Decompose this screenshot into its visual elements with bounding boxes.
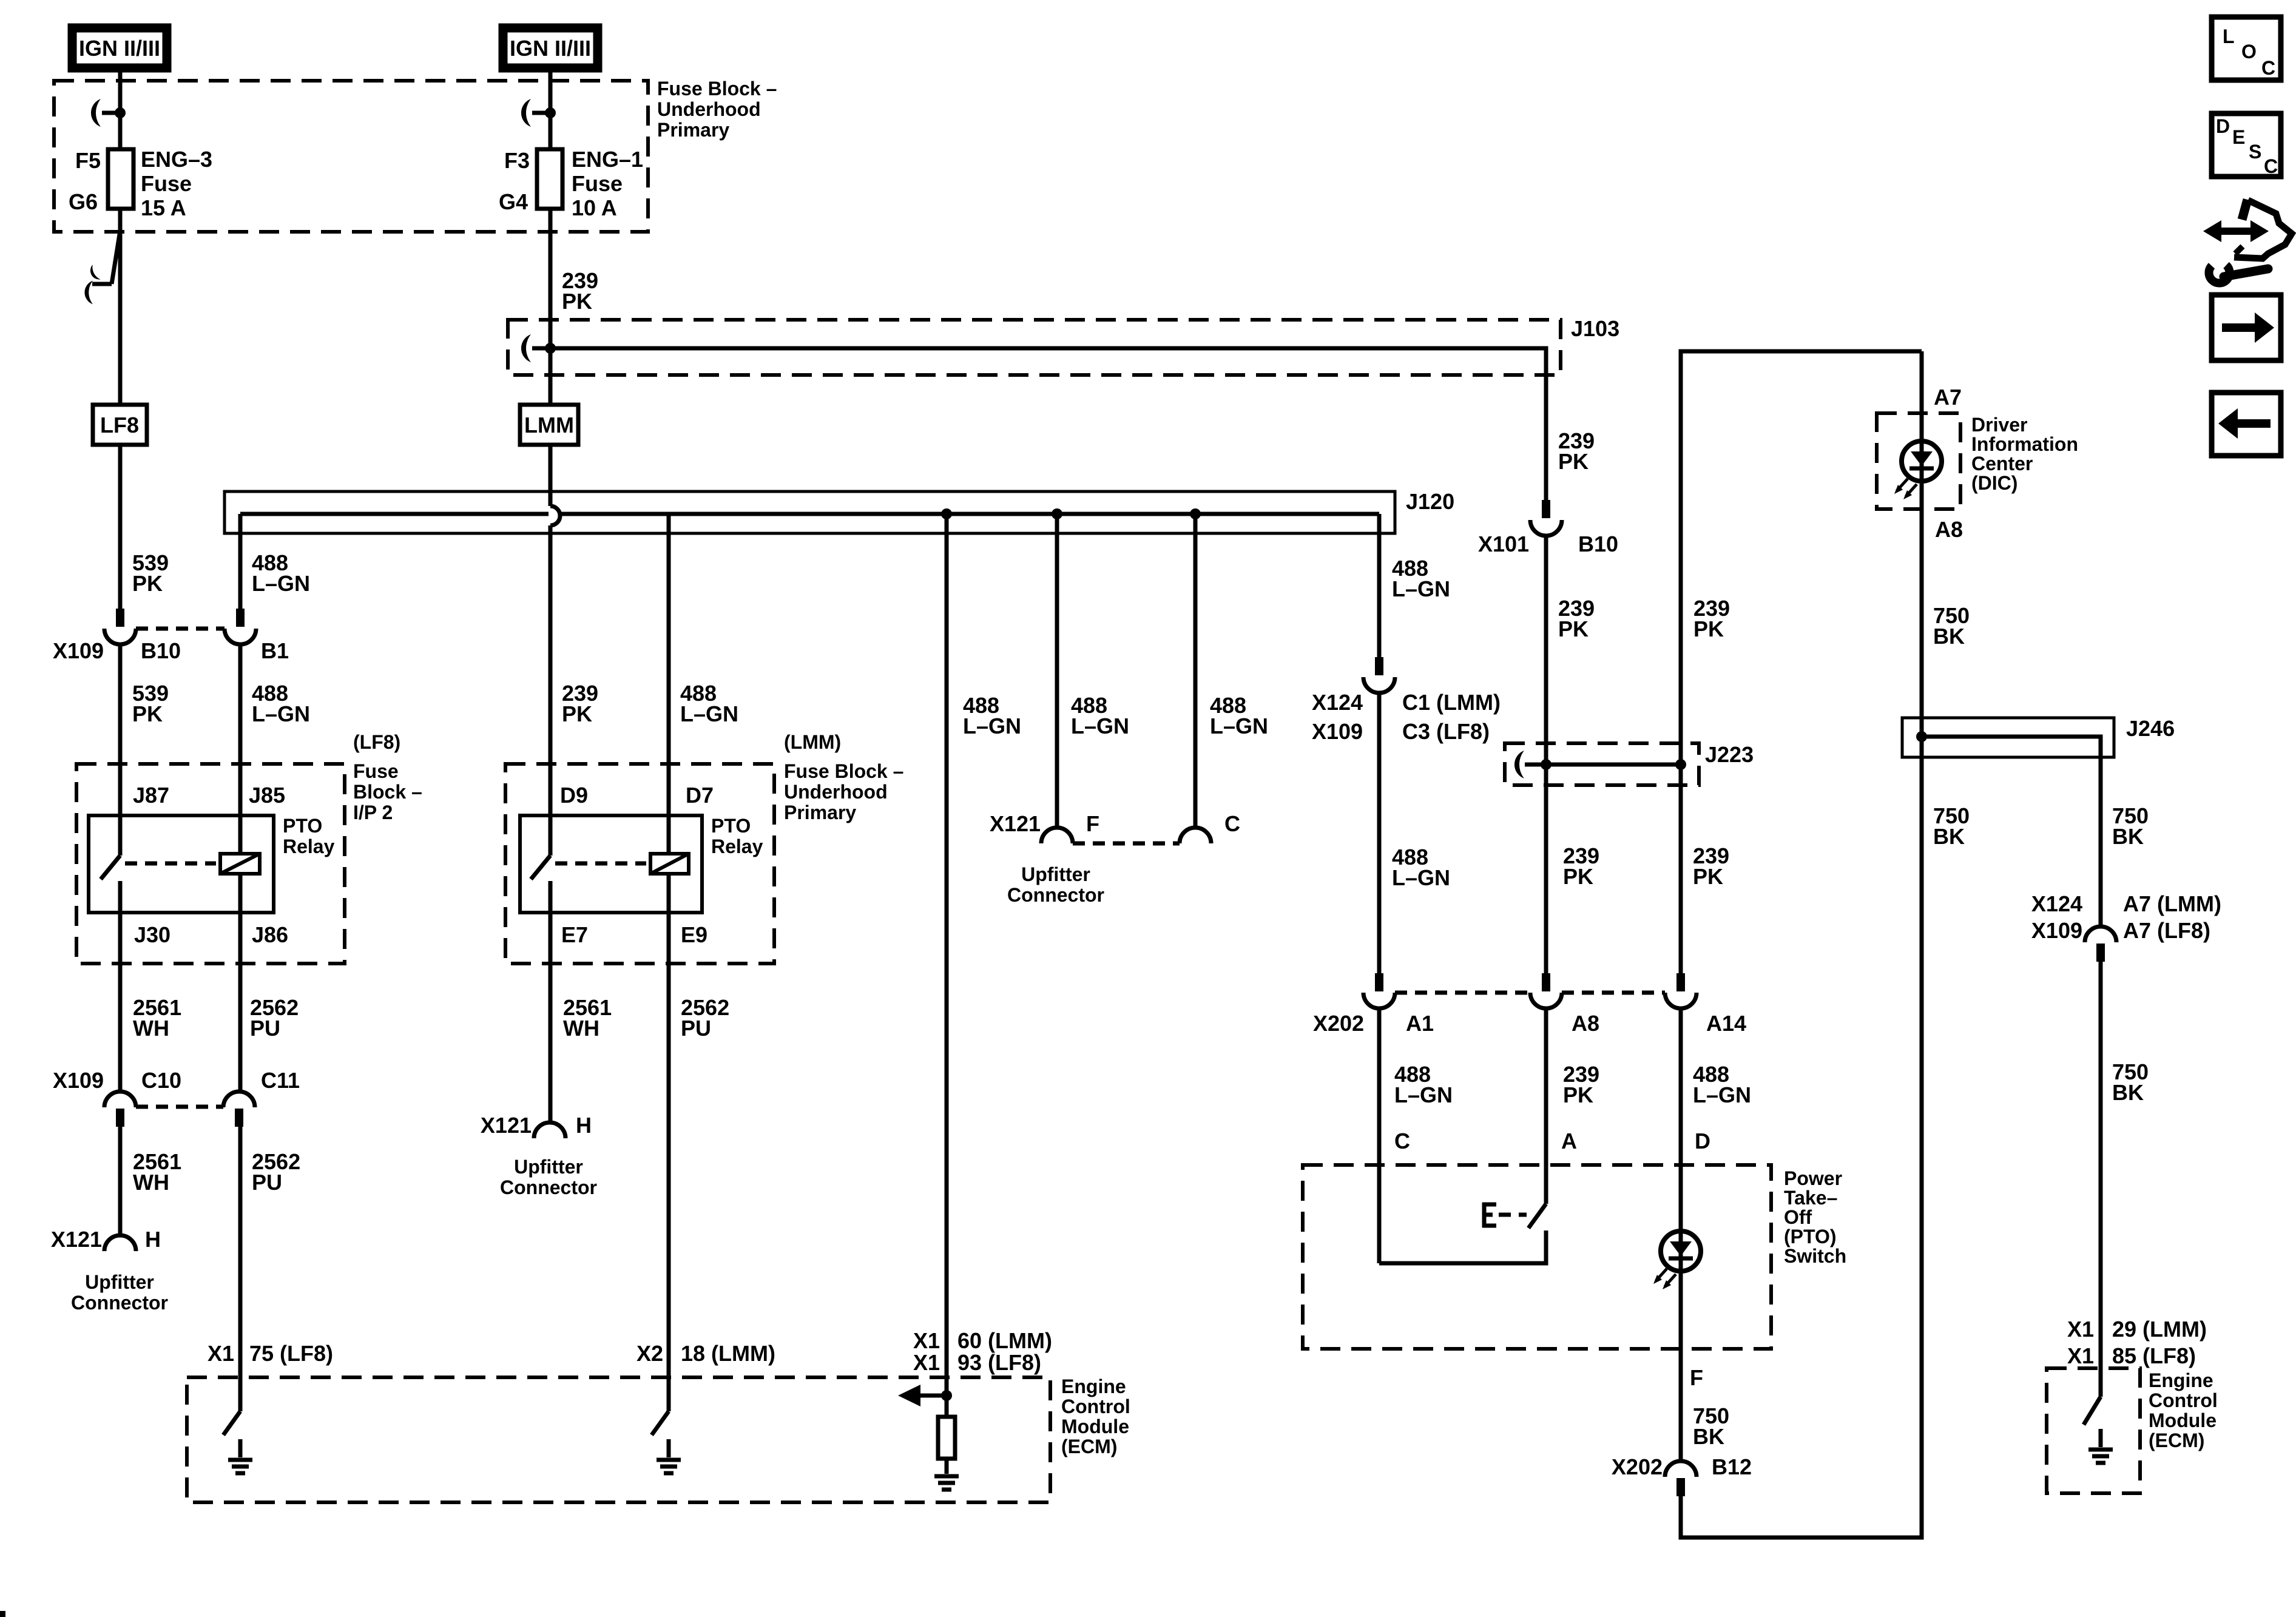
svg-text:Power: Power [1784, 1167, 1842, 1189]
wire label 239 PK (A8-A) [1563, 1062, 1599, 1107]
pin labels C A D [1394, 1129, 1710, 1153]
svg-text:Driver: Driver [1971, 414, 2028, 436]
svg-text:F3: F3 [504, 148, 530, 173]
svg-text:Connector: Connector [71, 1292, 168, 1314]
svg-text:X109: X109 [1312, 719, 1363, 744]
ground (X1-75) [228, 1460, 252, 1473]
wire LMM down to J120 hop [549, 445, 553, 506]
svg-text:Fuse: Fuse [572, 171, 623, 196]
splice J223 dashed box [1505, 742, 1754, 785]
wire C10 down to X121 H (2561 WH) [118, 1127, 123, 1235]
svg-text:WH: WH [133, 1170, 169, 1195]
connector X202 B12 terminal [1612, 1454, 1752, 1496]
icon DESC box [2212, 113, 2281, 177]
svg-text:PK: PK [562, 289, 592, 314]
svg-text:B12: B12 [1712, 1454, 1752, 1479]
svg-text:93 (LF8): 93 (LF8) [957, 1350, 1041, 1375]
wire DIC A8 down to J246 (750 BK) [1920, 481, 1924, 1538]
svg-text:A1: A1 [1406, 1011, 1434, 1036]
svg-text:X109: X109 [2031, 918, 2082, 943]
splice terminal hook (right fuse feed) [521, 99, 550, 127]
pin labels J87 J85 [133, 783, 285, 808]
wire label 2561 WH (below C10) [133, 1149, 181, 1195]
svg-text:J246: J246 [2126, 716, 2175, 741]
svg-text:Fuse: Fuse [141, 171, 192, 196]
svg-text:PK: PK [1563, 1082, 1593, 1107]
svg-text:D9: D9 [560, 783, 588, 808]
connector X124/X109 A7 terminal [2031, 891, 2221, 962]
svg-text:Upfitter: Upfitter [85, 1271, 154, 1293]
icon double arrow with wrench [2203, 200, 2292, 283]
wire A1 to PTO switch C (488 L-GN) [1377, 1008, 1382, 1263]
driver information center dashed box [1877, 413, 2078, 509]
svg-text:A8: A8 [1572, 1011, 1599, 1036]
svg-text:WH: WH [133, 1016, 169, 1041]
connector row labels X202 A1 A8 A14 [1313, 1011, 1746, 1036]
wire label 488 L-GN (above coil D7) [680, 681, 738, 726]
connector link dashed A1-A8 [1395, 991, 1530, 995]
svg-text:Block –: Block – [353, 781, 422, 803]
connector X109 B1 terminal [225, 609, 256, 644]
svg-text:PK: PK [1693, 616, 1724, 641]
svg-text:PK: PK [1693, 864, 1723, 889]
svg-text:BK: BK [2112, 1080, 2144, 1105]
wire label 239 PK (above X101) [1558, 428, 1595, 474]
fuse F3 ENG-1 10A [499, 147, 643, 220]
svg-text:Relay: Relay [711, 836, 763, 857]
wire label 488 L-GN (right drop) [1392, 556, 1450, 601]
connector link dashed F-C [1073, 842, 1180, 846]
svg-text:Underhood: Underhood [784, 781, 888, 803]
wire label 488 L-GN (above B1) [252, 550, 310, 596]
svg-text:Underhood: Underhood [657, 98, 761, 120]
splice terminal hook inside J103 [521, 334, 550, 362]
wire DIC branch down to J223 (239 PK) [1681, 351, 1922, 973]
upfitter connector text (middle taps) [1007, 863, 1104, 906]
signal arrow into ECM [898, 1385, 947, 1406]
svg-text:PK: PK [1558, 449, 1589, 474]
svg-text:Fuse: Fuse [353, 760, 399, 782]
engine control module dashed box (right) [2047, 1368, 2218, 1493]
svg-text:X121: X121 [481, 1113, 532, 1138]
svg-text:A: A [1561, 1129, 1577, 1153]
svg-text:PU: PU [252, 1170, 282, 1195]
svg-text:X124: X124 [2031, 891, 2082, 916]
wire label 239 PK (to X202 A8) [1563, 843, 1599, 889]
relay switch (LF8) [101, 815, 120, 1092]
svg-text:Control: Control [2149, 1389, 2218, 1411]
fuse F5 ENG-3 15A [69, 147, 212, 220]
pin labels X2 18 (LMM) [636, 1341, 775, 1366]
svg-text:WH: WH [563, 1016, 599, 1041]
svg-text:S: S [2249, 141, 2261, 163]
PTO relay box (LF8) [89, 815, 335, 913]
svg-text:Take–: Take– [1784, 1187, 1837, 1209]
svg-text:(ECM): (ECM) [1061, 1436, 1117, 1457]
svg-text:Engine: Engine [1061, 1376, 1126, 1397]
wire label 2561 WH (below relay LF8) [133, 995, 181, 1041]
ECM switch to ground (right) [2084, 1397, 2101, 1447]
wire fuse F3 down through J103 to LMM box [549, 209, 553, 405]
wire hop over J120 bus [550, 506, 560, 525]
connector labels X121 F C [990, 811, 1240, 836]
svg-text:(LMM): (LMM) [784, 731, 841, 753]
svg-text:LMM: LMM [524, 413, 574, 437]
svg-text:J103: J103 [1571, 316, 1619, 341]
svg-text:D: D [1695, 1129, 1710, 1153]
node LF8 [93, 405, 147, 445]
splice terminal hook (left fuse feed) [91, 99, 120, 127]
wire B10 to relay J87 (539 PK) [118, 643, 123, 856]
engine control module dashed box (left) [187, 1376, 1130, 1502]
icon arrow right box [2212, 295, 2281, 360]
wire J120 tap2 down to upfitter F [1055, 514, 1059, 828]
svg-text:C: C [2264, 155, 2278, 177]
icon LOC box [2212, 17, 2281, 80]
icon arrow left box [2212, 393, 2281, 456]
pin labels J30 J86 [134, 922, 288, 947]
svg-text:X101: X101 [1478, 532, 1529, 556]
svg-text:Information: Information [1971, 433, 2078, 455]
svg-text:Upfitter: Upfitter [1021, 863, 1090, 885]
connector X109 B10 terminal [104, 609, 136, 644]
svg-text:PK: PK [132, 571, 163, 596]
svg-text:O: O [2241, 41, 2257, 62]
svg-text:J85: J85 [249, 783, 285, 808]
wire label 488 L-GN (tap3) [1210, 693, 1268, 738]
svg-text:X124: X124 [1312, 690, 1363, 715]
svg-text:X202: X202 [1313, 1011, 1364, 1036]
svg-text:PK: PK [1558, 616, 1589, 641]
svg-text:Control: Control [1061, 1396, 1130, 1417]
svg-text:G6: G6 [69, 189, 98, 214]
svg-text:J120: J120 [1406, 489, 1454, 514]
connector X101 B10 terminal [1478, 500, 1618, 556]
svg-text:B10: B10 [141, 638, 181, 663]
svg-text:J87: J87 [133, 783, 169, 808]
svg-text:LF8: LF8 [100, 413, 139, 437]
svg-text:Module: Module [2149, 1409, 2217, 1431]
svg-text:Connector: Connector [500, 1176, 597, 1198]
wire label 750 BK (J246 right drop) [2112, 803, 2149, 849]
svg-text:X121: X121 [990, 811, 1041, 836]
connector labels X124 X109 C1 C3 [1312, 690, 1501, 744]
wire label 488 L-GN (tap1) [963, 693, 1021, 738]
ECM switch to ground (X1-75) [223, 1411, 240, 1457]
svg-text:X1: X1 [913, 1350, 940, 1375]
svg-text:L–GN: L–GN [1392, 576, 1450, 601]
svg-text:Fuse Block –: Fuse Block – [784, 760, 903, 782]
relay coil (LF8) [220, 854, 260, 874]
wire IGN right to fuse F3 [549, 68, 553, 149]
svg-text:C3 (LF8): C3 (LF8) [1402, 719, 1490, 744]
wire X101 to J223 (239 PK) [1544, 536, 1548, 973]
svg-text:18 (LMM): 18 (LMM) [681, 1341, 775, 1366]
wire A14 to PTO switch D (488 L-GN) [1679, 1008, 1683, 1231]
wire coil J85-J86 through [238, 874, 243, 1092]
wire label 239 PK (below fuse F3) [562, 268, 598, 314]
svg-text:H: H [576, 1113, 592, 1138]
svg-text:A7 (LMM): A7 (LMM) [2123, 891, 2221, 916]
connector X202 A14 terminal [1665, 973, 1697, 1008]
wire IGN left to fuse F5 [118, 68, 123, 149]
svg-text:X109: X109 [53, 638, 104, 663]
svg-text:(PTO): (PTO) [1784, 1226, 1837, 1247]
power label IGN II/III (left) [72, 28, 167, 68]
wire J120 tap1 down to ECM resistor [945, 514, 949, 1396]
wire label 239 PK (DIC branch) [1693, 596, 1730, 641]
svg-text:X202: X202 [1612, 1454, 1663, 1479]
svg-text:BK: BK [1693, 1424, 1724, 1449]
wire label 488 L-GN (below B1) [252, 681, 310, 726]
splice pack J120 outline [225, 489, 1454, 533]
wire label 488 L-GN (tap2) [1071, 693, 1129, 738]
svg-text:Switch: Switch [1784, 1245, 1846, 1267]
svg-text:10 A: 10 A [572, 195, 617, 220]
wire PTO switch bottom to C leg [1379, 1230, 1546, 1263]
wire J120 drop to B1 (488 L-GN) [238, 514, 243, 609]
svg-text:C10: C10 [141, 1068, 181, 1093]
svg-text:X1: X1 [2067, 1343, 2094, 1368]
svg-text:ENG–3: ENG–3 [141, 147, 212, 172]
svg-text:(DIC): (DIC) [1971, 472, 2017, 494]
wire label 488 L-GN (A1-C) [1394, 1062, 1453, 1107]
pin labels D9 D7 [560, 783, 714, 808]
wire A7 to ECM X1-29/85 (750 BK) [2099, 962, 2103, 1397]
wire J120 tap3 down to upfitter C [1194, 514, 1198, 828]
PTO relay box (LMM) [520, 815, 763, 913]
svg-text:A14: A14 [1706, 1011, 1746, 1036]
connector X202 A1 terminal [1363, 973, 1395, 1008]
splice pack J246 outline [1902, 716, 2175, 757]
connector link dashed C10-C11 [136, 1105, 223, 1109]
wire label 750 BK (A8 to J246) [1933, 603, 1970, 649]
branch stub connector symbol (LF8 option) [84, 231, 120, 305]
wire label 2561 WH (below relay LMM) [563, 995, 612, 1041]
wire label 750 BK (to right ECM) [2112, 1059, 2149, 1105]
connector link dashed B10-B1 [136, 627, 225, 631]
svg-text:PU: PU [250, 1016, 280, 1041]
pin labels X1 75 (LF8) [208, 1341, 333, 1366]
connector link dashed A8-A14 [1562, 991, 1665, 995]
node: junction dot J120 tap 3 [1190, 508, 1201, 519]
svg-text:X1: X1 [208, 1341, 234, 1366]
node: junction dot J223 left [1541, 759, 1551, 770]
svg-text:29 (LMM): 29 (LMM) [2112, 1317, 2207, 1342]
wire LF8 down to X109 B10 [118, 445, 123, 609]
wire fuse F5 to LF8 box [118, 209, 123, 405]
svg-text:PU: PU [681, 1016, 711, 1041]
svg-text:G4: G4 [499, 189, 528, 214]
svg-text:Connector: Connector [1007, 884, 1104, 906]
ground (X2-18) [657, 1460, 681, 1473]
svg-text:L–GN: L–GN [252, 701, 310, 726]
svg-text:Primary: Primary [657, 119, 729, 141]
relay coil (LMM) [650, 854, 689, 874]
svg-text:BK: BK [1933, 824, 1965, 849]
node: junction dot J246 [1916, 731, 1927, 742]
wire label 2562 PU (below C11) [252, 1149, 300, 1195]
svg-text:BK: BK [2112, 824, 2144, 849]
svg-text:A8: A8 [1935, 517, 1963, 542]
svg-text:Center: Center [1971, 453, 2033, 474]
LED light arrows (DIC) [1894, 479, 1917, 499]
svg-text:B1: B1 [261, 638, 289, 663]
svg-text:Engine: Engine [2149, 1369, 2213, 1391]
svg-text:IGN II/III: IGN II/III [79, 36, 160, 61]
svg-text:E9: E9 [681, 922, 707, 947]
svg-text:L–GN: L–GN [252, 571, 310, 596]
pin labels E7 E9 [561, 922, 707, 947]
svg-text:C1 (LMM): C1 (LMM) [1402, 690, 1501, 715]
svg-text:Fuse Block –: Fuse Block – [657, 78, 777, 100]
wire DIC A7 entry [1920, 351, 1924, 441]
wire label 539 PK (below B10) [132, 681, 169, 726]
svg-text:E7: E7 [561, 922, 588, 947]
svg-text:L–GN: L–GN [1392, 865, 1450, 890]
svg-text:I/P 2: I/P 2 [353, 802, 393, 823]
splice J103 dashed box [508, 316, 1619, 375]
wire coil D7-E9 through [667, 874, 671, 1411]
svg-text:Module: Module [1061, 1416, 1129, 1437]
svg-text:X109: X109 [53, 1068, 104, 1093]
relay actuating dashed link (LF8) [125, 862, 216, 866]
relay switch (LMM) [531, 856, 550, 1122]
svg-text:PK: PK [562, 701, 592, 726]
svg-text:(ECM): (ECM) [2149, 1430, 2204, 1451]
PTO indicator LED [1661, 1231, 1701, 1271]
power take-off switch dashed box [1303, 1165, 1846, 1349]
wire C11 down to ECM X1-75 (2562 PU) [238, 1127, 243, 1411]
upfitter connector F [1041, 828, 1073, 843]
svg-text:60 (LMM): 60 (LMM) [957, 1328, 1052, 1353]
ground (right ECM) [2088, 1450, 2113, 1463]
wire label 239 PK (to X202 A14) [1693, 843, 1729, 889]
wire J103 splice to X101 (239 PK) [550, 348, 1546, 500]
node: junction dot at right fuse feed [545, 107, 556, 118]
svg-text:75 (LF8): 75 (LF8) [249, 1341, 333, 1366]
wire label 750 BK (below F) [1693, 1403, 1729, 1449]
ground (ECM resistor) [934, 1476, 959, 1490]
node: junction dot J120 tap 2 [1052, 508, 1062, 519]
svg-text:85 (LF8): 85 (LF8) [2112, 1343, 2196, 1368]
wire B12 return to J246 [1681, 737, 1922, 1538]
page mark (bottom left) [0, 1611, 5, 1617]
svg-text:C: C [1394, 1129, 1410, 1153]
node: junction dot at ECM signal input [941, 1390, 952, 1401]
resistor (ECM pull) [938, 1396, 955, 1474]
fuse block - underhood primary dashed box [54, 78, 777, 232]
svg-text:A7 (LF8): A7 (LF8) [2123, 918, 2210, 943]
svg-text:F5: F5 [75, 148, 101, 173]
svg-text:PK: PK [1563, 864, 1593, 889]
PTO switch actuator E symbol [1482, 1203, 1527, 1227]
svg-text:Upfitter: Upfitter [514, 1156, 583, 1178]
svg-text:L–GN: L–GN [1210, 714, 1268, 738]
svg-text:Primary: Primary [784, 802, 856, 823]
svg-text:E: E [2232, 126, 2245, 148]
svg-text:A7: A7 [1934, 385, 1962, 410]
svg-text:C: C [2261, 57, 2275, 79]
svg-text:Relay: Relay [283, 836, 335, 857]
svg-text:X1: X1 [2067, 1317, 2094, 1342]
wire label 750 BK (left of J246 drop) [1933, 803, 1970, 849]
upfitter connector X121 H (middle) [481, 1113, 597, 1198]
wire LMM continues to PTO relay D9 [549, 525, 553, 856]
svg-text:F: F [1690, 1365, 1703, 1390]
node LMM [520, 405, 578, 445]
svg-text:D: D [2216, 115, 2230, 137]
svg-text:IGN II/III: IGN II/III [510, 36, 591, 61]
wire J246 internal to right drop [1922, 737, 2101, 927]
wire label 539 PK (above X109 B10) [132, 550, 169, 596]
svg-text:L–GN: L–GN [963, 714, 1021, 738]
ECM switch to ground (X2-18) [652, 1411, 669, 1457]
node: junction dot at left fuse feed [115, 107, 126, 118]
svg-text:L–GN: L–GN [1693, 1082, 1751, 1107]
wire label 2562 PU (below relay LF8) [250, 995, 299, 1041]
svg-text:C: C [1224, 811, 1240, 836]
connector X124/X109 C1/C3 terminal [1363, 657, 1395, 693]
power label IGN II/III (right) [503, 28, 598, 68]
PTO switch blade [1528, 1204, 1546, 1228]
DIC indicator LED [1902, 441, 1942, 481]
svg-text:L–GN: L–GN [1071, 714, 1129, 738]
svg-text:(LF8): (LF8) [353, 731, 400, 753]
svg-text:H: H [145, 1227, 161, 1252]
wire J120 internal bus [240, 512, 1379, 516]
wire J120 drop to coil D7 (488 L-GN) [667, 514, 671, 854]
wire label 2562 PU (below relay LMM) [681, 995, 729, 1041]
wire J223 internal [1546, 763, 1681, 767]
upfitter connector X121 H (lower left) [51, 1227, 168, 1314]
svg-text:X2: X2 [636, 1341, 663, 1366]
svg-text:ENG–1: ENG–1 [572, 147, 643, 172]
wire J120 right end drop (488 L-GN) [1377, 514, 1382, 657]
pin labels X1 60 (LMM) / X1 93 (LF8) [913, 1328, 1052, 1375]
wire label 488 L-GN (below C1/C3) [1392, 845, 1450, 890]
fuse block I/P 2 dashed box (LF8) [76, 731, 422, 964]
node: junction dot J223 right [1675, 759, 1686, 770]
wire B1 to relay coil J85 (488 L-GN) [238, 643, 243, 854]
connector row labels X109 B10 B1 [53, 638, 289, 663]
svg-text:PK: PK [132, 701, 163, 726]
connector row labels X109 C10 C11 [53, 1068, 300, 1093]
splice terminal hook inside J223 [1514, 751, 1546, 778]
wire C1/C3 down to X202 A1 [1377, 693, 1382, 973]
svg-text:L–GN: L–GN [1394, 1082, 1453, 1107]
connector X109 C10 terminal [104, 1092, 136, 1127]
wire label 488 L-GN (A14-D) [1693, 1062, 1751, 1107]
svg-text:B10: B10 [1578, 532, 1618, 556]
svg-text:C11: C11 [261, 1068, 300, 1093]
connector X202 A8 terminal [1530, 973, 1562, 1008]
wire A8 to PTO switch A (239 PK) [1544, 1008, 1548, 1204]
svg-text:J30: J30 [134, 922, 171, 947]
node: junction dot J103 [545, 343, 556, 354]
svg-text:15 A: 15 A [141, 195, 186, 220]
svg-text:X1: X1 [913, 1328, 940, 1353]
svg-text:F: F [1086, 811, 1099, 836]
connector X109 C11 terminal [223, 1092, 255, 1127]
LED light arrows (PTO) [1653, 1269, 1676, 1289]
upfitter connector C [1180, 828, 1211, 843]
svg-text:Off: Off [1784, 1206, 1812, 1228]
svg-text:BK: BK [1933, 624, 1965, 649]
svg-text:J86: J86 [252, 922, 288, 947]
wire label 239 PK (below X101) [1558, 596, 1595, 641]
wire PTO lamp to F (750 BK) [1679, 1271, 1683, 1461]
